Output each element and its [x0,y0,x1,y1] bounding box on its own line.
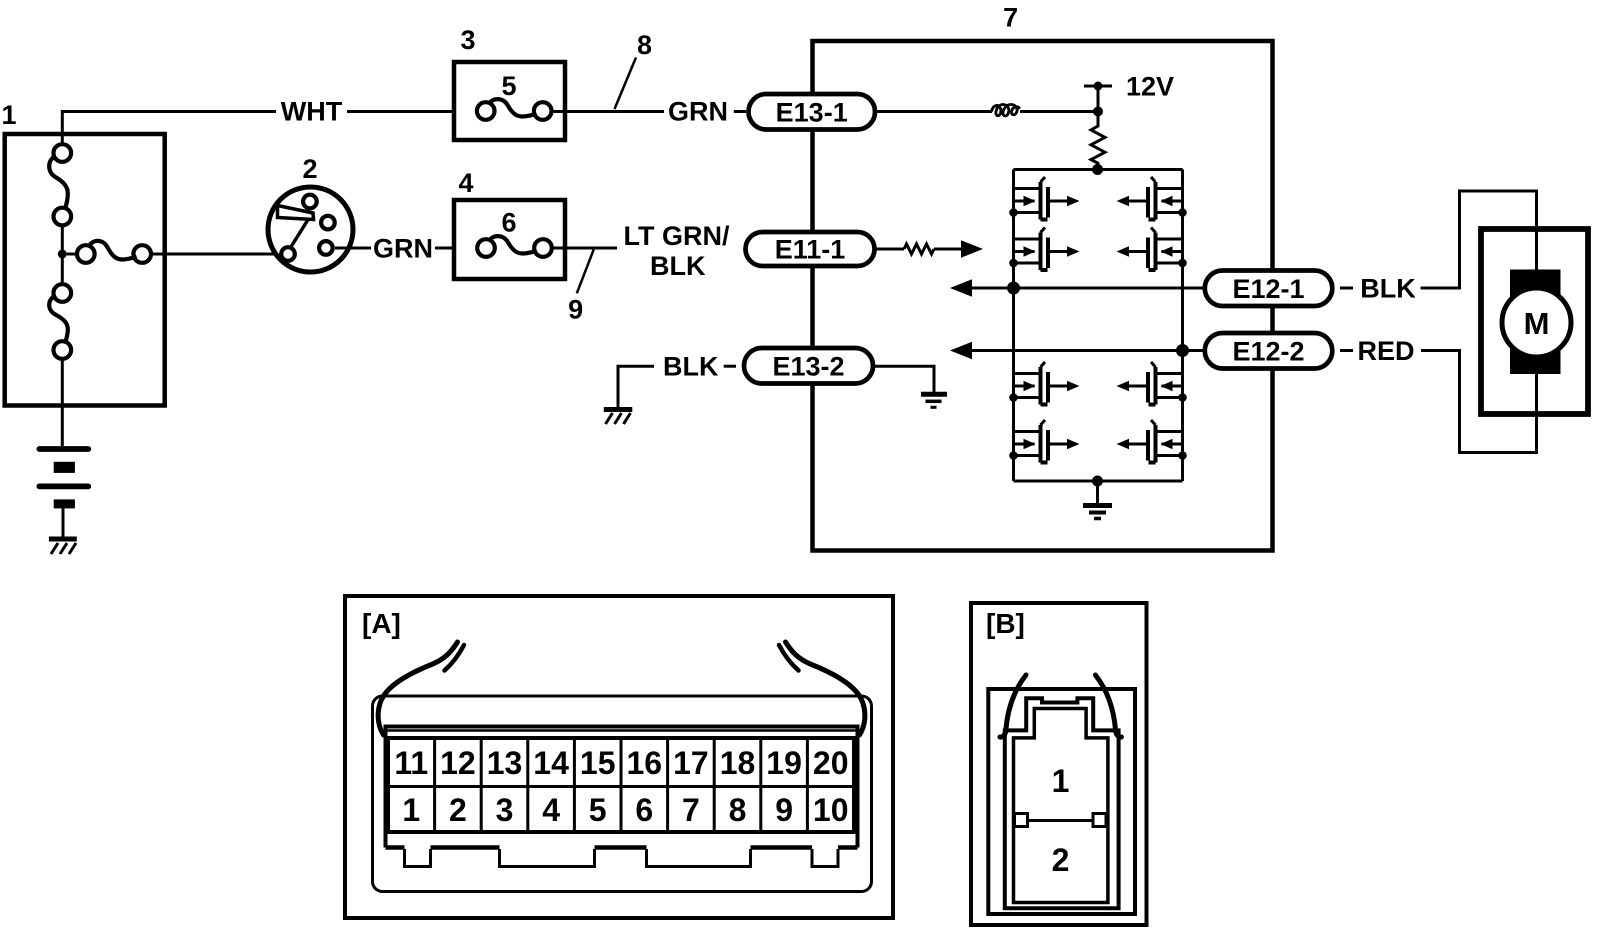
wire E11-1 to resistor [875,248,905,251]
wire E13-1 to 12V node [875,110,992,113]
12V terminal [1084,82,1112,108]
motor box [1481,229,1588,414]
svg-text:LT GRN/: LT GRN/ [624,221,730,251]
connector A inner shell [386,727,858,848]
svg-text:BLK: BLK [663,352,719,382]
svg-text:19: 19 [766,745,802,781]
fuse F2 (horizontal, box 1) [67,241,151,263]
battery/junction box 1 [5,134,165,406]
wire RED to motor [1421,351,1537,453]
svg-text:1: 1 [402,792,420,828]
wire dash E12-1 [1340,287,1353,290]
svg-text:6: 6 [635,792,653,828]
fuse box 4 [454,200,565,279]
H-bridge bottom rail [1014,480,1183,483]
svg-text:7: 7 [682,792,700,828]
svg-text:11: 11 [394,745,428,781]
svg-text:8: 8 [729,792,747,828]
inductor (noise filter coil) [992,104,1021,115]
resistor R1 (horizontal) [904,244,934,254]
svg-text:BLK: BLK [650,251,706,281]
svg-text:4: 4 [458,168,473,198]
svg-text:4: 4 [542,792,560,828]
box 7 (motor controller) [813,41,1273,551]
svg-text:E13-2: E13-2 [772,352,844,382]
svg-text:17: 17 [673,745,709,781]
wire box 1 to ignition switch [151,253,279,256]
svg-text:14: 14 [533,745,569,781]
connector A wire whisker left [378,642,464,735]
svg-text:15: 15 [580,745,616,781]
E12-1 feedback line with arrow [950,279,1205,296]
svg-text:2: 2 [302,154,317,184]
wire [435,247,454,250]
battery B1 [39,449,88,508]
wire [61,225,64,284]
wire dash BLK to E13-2 [724,365,736,368]
junction bottom [1092,476,1103,487]
svg-text:12: 12 [440,745,476,781]
fuse F1 (vertical, box 1) [49,144,71,225]
E12-2 feedback line with arrow [950,342,1205,359]
connector B wire whisker left [1000,675,1026,737]
wire box 4 to LT GRN/BLK [552,247,617,250]
transistor Q6 [1117,228,1187,271]
resistor R2 (vertical) [1091,112,1105,170]
connector pill E11-1 [746,232,875,266]
svg-text:8: 8 [637,30,652,60]
svg-text:E11-1: E11-1 [775,234,846,264]
H-bridge right rail [1181,170,1184,482]
pin numbers row 11-20 [394,745,848,781]
svg-text:1: 1 [1052,763,1070,799]
connector pill E12-1 [1205,271,1333,307]
svg-text:7: 7 [1003,2,1018,32]
wire [1020,110,1098,113]
svg-text:2: 2 [1052,842,1070,878]
svg-text:5: 5 [589,792,607,828]
svg-text:6: 6 [501,208,516,238]
junction E12-2 on right rail [1176,344,1189,357]
leader line 9 [577,249,594,293]
wire inside motor box [1535,229,1538,414]
connector view A outer box [345,596,893,918]
pin numbers row 1-10 [402,792,848,828]
motor brushes [1510,270,1561,375]
svg-text:E12-2: E12-2 [1232,336,1304,366]
wire BLK to motor [1421,191,1537,288]
junction [1093,107,1103,117]
ignition switch 2 [268,187,353,272]
svg-text:BLK: BLK [1360,274,1416,304]
transistor Q4 [1009,420,1079,463]
wire box 3 to GRN [552,110,665,113]
connector B inner frame [988,689,1135,914]
connector pill E13-2 [744,348,873,384]
svg-text:18: 18 [720,745,756,781]
svg-text:13: 13 [487,745,523,781]
svg-text:2: 2 [449,792,467,828]
H-bridge top rail [1014,168,1183,171]
connector view B outer box [971,603,1147,925]
junction node [58,250,67,259]
ground (chassis, left of BLK) [604,410,633,425]
motor M1 [1502,288,1571,357]
svg-text:M: M [1524,306,1550,341]
connector A body [373,696,872,892]
wire [62,508,65,537]
fuse F5 (box 3) [477,99,552,120]
svg-text:9: 9 [775,792,793,828]
connector A pin grid [388,738,854,832]
svg-text:16: 16 [627,745,663,781]
junction E12-1 on left rail [1007,282,1020,295]
connector B wire whisker right [1095,675,1121,737]
wire E13-2 right to ground [872,366,935,392]
wire to battery [61,359,64,446]
transistor Q7 [1117,362,1187,405]
connector pill E12-2 [1205,333,1333,369]
svg-text:[B]: [B] [986,608,1025,639]
ground (chassis) below battery [49,539,77,554]
wire with arrow to gate bus [934,240,983,257]
connector A lock teeth [386,848,858,867]
junction [1093,165,1103,175]
svg-text:12V: 12V [1126,72,1174,102]
wire switch to GRN [335,247,371,250]
ground (H-bridge) [1083,481,1112,519]
fuse F4 (box 4) [477,236,552,257]
svg-text:[A]: [A] [362,608,401,639]
connector B shell inner [1014,709,1108,903]
wire WHT to fuse box 3 [347,110,454,113]
connector B cavity divider [1014,814,1107,827]
wire E13-2 left to chassis ground [618,366,654,407]
svg-text:GRN: GRN [668,97,728,127]
transistor Q5 [1117,177,1187,220]
svg-text:3: 3 [460,25,475,55]
svg-text:GRN: GRN [373,234,433,264]
svg-text:20: 20 [813,745,849,781]
svg-text:3: 3 [496,792,514,828]
svg-text:RED: RED [1357,336,1414,366]
svg-text:E13-1: E13-1 [776,97,848,127]
transistor Q1 [1009,177,1079,220]
connector B shell outer [1005,698,1119,908]
svg-text:WHT: WHT [281,97,343,127]
transistor Q8 [1117,420,1187,463]
svg-text:1: 1 [1,100,16,130]
svg-text:E12-1: E12-1 [1232,274,1304,304]
fuse F3 (vertical, box 1) [49,284,71,359]
svg-text:5: 5 [501,71,516,101]
svg-text:10: 10 [813,792,849,828]
ground (inside box 7) [921,394,947,407]
connector pill E13-1 [749,94,876,130]
fuse box 3 [454,62,565,140]
H-bridge left rail [1012,170,1015,482]
leader line 8 [615,58,637,110]
transistor Q3 [1009,362,1079,405]
connector A wire whisker right [779,642,865,735]
svg-text:9: 9 [568,295,583,325]
junction top [1092,164,1103,175]
transistor Q2 [1009,228,1079,271]
wire WHT from box 1 [62,112,276,147]
wire dash GRN to E13-1 [734,110,746,113]
wire dash E12-2 [1340,349,1353,352]
